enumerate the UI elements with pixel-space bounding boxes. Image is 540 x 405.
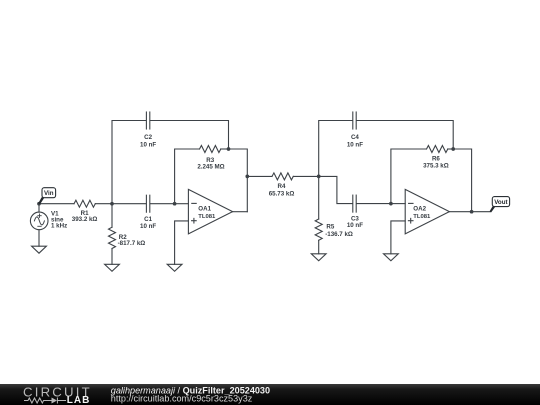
wire: OA1 minus stub [175, 203, 189, 205]
op-amp OA1 [188, 189, 232, 234]
wire: node B up to C4 loop [319, 121, 353, 177]
wire: C1 to minus node [150, 203, 174, 205]
wire: C2 to right corner, down to R3 right node [150, 121, 228, 150]
OA1 minus pin symbol [192, 202, 196, 204]
resistor R5 (vertical) [315, 219, 322, 240]
ground (OA1 +) [167, 264, 182, 271]
wire: node A down to R2 [111, 204, 113, 228]
OA2 minus pin symbol [409, 202, 413, 204]
resistor R3 [200, 146, 221, 153]
wire: R4 to node B [293, 175, 318, 177]
svg-text:Vin: Vin [44, 190, 54, 197]
wire: node A up to C2 loop [112, 121, 146, 204]
svg-text:R5: R5 [326, 224, 334, 231]
wire: minus node up to R3 left [175, 149, 200, 204]
svg-text:-136.7 kΩ: -136.7 kΩ [325, 231, 353, 238]
wire: R1 to node A [95, 203, 112, 205]
wire: V1 to ground [38, 230, 40, 247]
labels [51, 134, 449, 247]
wire: C3 to OA2 minus node [357, 203, 391, 205]
wire: OA2 plus input to ground [391, 221, 405, 254]
svg-text:C2: C2 [144, 134, 152, 141]
node B junction dot [317, 175, 321, 179]
svg-text:65.73 kΩ: 65.73 kΩ [269, 190, 295, 197]
wire: R6 to junction [448, 148, 453, 150]
wire: node A to C1 [112, 203, 146, 205]
op-amp OA2 [405, 189, 449, 234]
logo squiggle wire + resistor + diode [24, 398, 66, 404]
svg-text:OA1: OA1 [198, 206, 211, 213]
OA2 plus pin symbol [408, 220, 413, 222]
wire: node B right and down to C3 [319, 176, 353, 203]
wire: OA2 output to Vout [449, 211, 490, 213]
node A junction dot [110, 202, 114, 206]
node: OA1 minus input junction dot [173, 202, 177, 206]
node: OA2 output junction dot [470, 210, 474, 214]
svg-text:Vout: Vout [494, 199, 507, 206]
wire: R3 to junction [221, 148, 229, 150]
resistor R6 [427, 146, 448, 153]
resistor R4 [272, 173, 293, 180]
svg-text:-817.7 kΩ: -817.7 kΩ [118, 240, 146, 247]
node: Vin junction dot [37, 202, 41, 206]
svg-text:1 kHz: 1 kHz [51, 223, 67, 230]
wire: OA1 output [233, 211, 248, 213]
flag Vout [490, 197, 510, 213]
svg-text:LAB: LAB [67, 395, 91, 405]
svg-text:10 nF: 10 nF [347, 222, 363, 229]
svg-text:10 nF: 10 nF [347, 141, 363, 148]
wire: node B down to R5 [318, 176, 320, 219]
OA1 plus pin symbol [192, 220, 197, 222]
resistor R2 (vertical) [109, 227, 116, 248]
svg-text:10 nF: 10 nF [140, 141, 156, 148]
node: R3/C2 junction dot [227, 147, 231, 151]
wire: junction right then down to OA2 output [453, 149, 471, 212]
capacitor C2 [145, 112, 147, 129]
svg-text:393.2 kΩ: 393.2 kΩ [72, 216, 98, 223]
voltage source V1 (sine) [30, 212, 48, 230]
wire: OA2 minus stub [391, 203, 405, 205]
flag Vin [38, 188, 55, 205]
node: output branch junction dot [245, 175, 249, 179]
svg-text:375.3 kΩ: 375.3 kΩ [423, 163, 449, 170]
resistor R1 [74, 200, 95, 207]
node: OA2 minus junction dot [389, 202, 393, 206]
svg-text:http://circuitlab.com/c9c5r3cz: http://circuitlab.com/c9c5r3cz53y3z [111, 393, 253, 403]
ground (OA2 +) [384, 254, 399, 261]
svg-text:R4: R4 [278, 183, 286, 190]
ground (R2) [105, 264, 120, 271]
svg-text:10 nF: 10 nF [140, 223, 156, 230]
wire: minus node up to R6 left [391, 149, 427, 204]
svg-text:2.245 MΩ: 2.245 MΩ [197, 163, 224, 170]
svg-text:TL081: TL081 [413, 214, 431, 220]
wire: Vin node to R1 [39, 203, 74, 205]
svg-text:TL081: TL081 [198, 214, 216, 220]
wire: stage1 output to R4 [247, 175, 272, 177]
wire: C4 right to corner, down to R6 right node [357, 121, 453, 150]
ground (V1) [32, 246, 47, 253]
ground (R5) [311, 254, 326, 261]
capacitor C4 [352, 112, 354, 129]
svg-text:OA2: OA2 [413, 206, 426, 213]
wire: junction right then down to OA1 output [229, 149, 248, 212]
svg-text:C4: C4 [351, 134, 359, 141]
node: R6/C4 junction dot [451, 147, 455, 151]
wire: Vin node down to V1 [38, 204, 40, 212]
capacitor C3 [352, 195, 354, 212]
wire: R5 to ground [318, 240, 320, 254]
wire: OA1 plus input to ground [175, 221, 189, 264]
svg-text:R6: R6 [432, 156, 440, 163]
capacitor C1 [145, 195, 147, 212]
wire: R2 to ground [111, 249, 113, 265]
